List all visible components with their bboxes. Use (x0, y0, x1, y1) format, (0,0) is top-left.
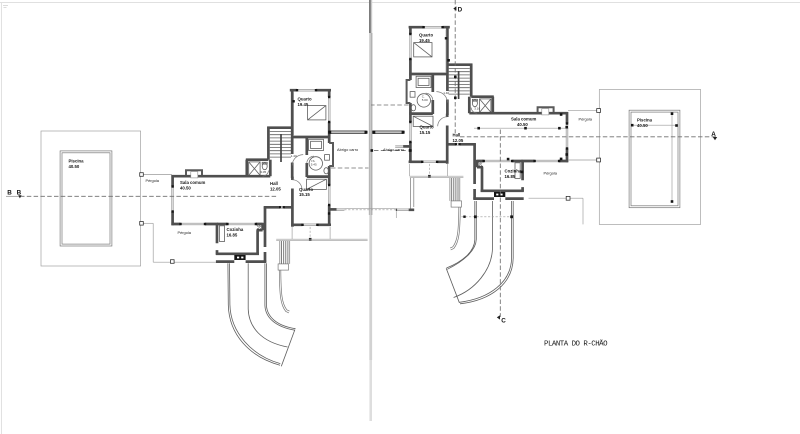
svg-text:D: D (458, 6, 463, 13)
section line A (460, 136, 716, 138)
svg-text:Quarto: Quarto (419, 33, 433, 38)
right pergola posts (566, 109, 600, 201)
svg-text:16.85: 16.85 (227, 232, 238, 237)
svg-text:40.50: 40.50 (69, 164, 80, 169)
svg-text:Quarto: Quarto (298, 97, 312, 102)
left pergola enclosure (41, 131, 141, 266)
svg-text:Abrigo carro: Abrigo carro (383, 147, 404, 152)
svg-text:Piscina: Piscina (637, 118, 653, 123)
left patio canopy thin lines (276, 239, 367, 241)
svg-text:3.05: 3.05 (260, 170, 266, 174)
svg-text:Sala comum: Sala comum (511, 117, 536, 122)
section line B (6, 195, 20, 197)
left pool inner (62, 153, 110, 244)
svg-text:15.15: 15.15 (299, 192, 310, 197)
right patio canopy thin lines (410, 176, 464, 178)
carport dashed mid line (374, 149, 407, 151)
left house unit (171, 89, 368, 313)
svg-text:19.45: 19.45 (298, 102, 309, 107)
svg-text:15.15: 15.15 (420, 130, 431, 135)
svg-text:Cozinha: Cozinha (227, 227, 244, 232)
svg-text:5.45: 5.45 (311, 162, 317, 166)
svg-text:PLANTA DO R-CHÃO: PLANTA DO R-CHÃO (544, 340, 608, 349)
property boundary central line (369, 0, 372, 215)
svg-text:A: A (711, 131, 716, 138)
svg-text:Pérgola: Pérgola (579, 116, 593, 121)
svg-text:19.45: 19.45 (419, 38, 430, 43)
right pool dim line horizontal (632, 124, 676, 126)
right house unit (mirrored) (371, 26, 568, 250)
svg-text:Pérgola: Pérgola (146, 178, 160, 183)
svg-text:Cozinha: Cozinha (505, 169, 522, 174)
svg-text:5.00: 5.00 (422, 98, 428, 102)
right pool inner (631, 112, 678, 206)
patio boundary thin+dash between houses (344, 208, 395, 210)
svg-text:40.50: 40.50 (180, 185, 191, 190)
svg-text:40.50: 40.50 (517, 122, 528, 127)
svg-text:Hall: Hall (453, 133, 461, 138)
svg-text:Pérgola: Pérgola (178, 230, 192, 235)
svg-text:40.50: 40.50 (637, 123, 648, 128)
svg-text:Piscina: Piscina (69, 159, 85, 164)
svg-text:R.I.: R.I. (257, 227, 262, 231)
section line C (499, 130, 501, 318)
svg-text:16.85: 16.85 (505, 174, 516, 179)
svg-text:3.10: 3.10 (474, 107, 480, 111)
svg-text:R.I.: R.I. (478, 163, 483, 167)
svg-text:12.05: 12.05 (270, 186, 281, 191)
left pergola posts (140, 173, 174, 264)
svg-text:Abrigo carro: Abrigo carro (337, 147, 358, 152)
right courtyard south wall (396, 208, 414, 211)
svg-text:12.05: 12.05 (453, 138, 464, 143)
top-left corner tick marks (3, 6, 8, 8)
right pool outer (629, 110, 680, 208)
svg-text:C: C (501, 318, 506, 325)
svg-text:Pérgola: Pérgola (544, 171, 558, 176)
svg-text:1.40: 1.40 (291, 154, 297, 158)
right pool dim line vertical (671, 114, 673, 202)
svg-text:B: B (17, 189, 22, 196)
small stub below right courtyard (395, 212, 397, 219)
svg-text:Hall: Hall (270, 181, 278, 186)
left pool outer (60, 151, 112, 246)
right courtyard west wall (thin double) (411, 178, 414, 209)
svg-text:Quarto: Quarto (299, 187, 313, 192)
right driveway dim dashed line (461, 216, 512, 218)
page frame top (0, 2, 800, 4)
svg-text:1.40: 1.40 (443, 91, 449, 95)
svg-text:Quarto: Quarto (420, 125, 434, 130)
svg-text:Sala comum: Sala comum (180, 180, 205, 185)
section line D (454, 0, 456, 133)
svg-text:B: B (7, 190, 12, 197)
right pergola enclosure (599, 90, 700, 225)
page frame left (0, 3, 2, 434)
